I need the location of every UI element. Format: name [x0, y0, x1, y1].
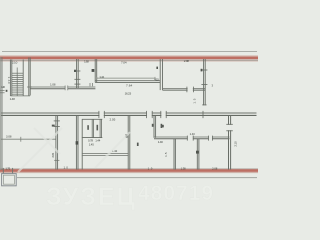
- middle wall door ticks: [99, 111, 203, 118]
- watermark diagonal strokes: [18, 128, 130, 172]
- svg-text:ЗУЗЕЦ: ЗУЗЕЦ: [46, 183, 137, 211]
- svg-text:480719: 480719: [138, 182, 214, 205]
- svg-text:1.40: 1.40: [190, 132, 196, 136]
- svg-text:7.04: 7.04: [121, 61, 127, 65]
- lower-left dimension line: [1, 138, 56, 140]
- WC cabin labels (rotated dims): [87, 125, 89, 130]
- dark label left of wall C: [126, 134, 128, 137]
- dark tick on wall G: [196, 151, 199, 154]
- label left of right upper wall: [201, 69, 203, 72]
- dark label on lower wall B: [76, 141, 79, 144]
- room A bottom wall (double): [30, 86, 95, 88]
- interior dimension line: [97, 77, 156, 79]
- svg-text:7.64: 7.64: [126, 83, 132, 87]
- big room bottom wall (double): [95, 80, 160, 82]
- svg-text:1.68: 1.68: [84, 59, 89, 63]
- stair bottom edge: [10, 95, 30, 97]
- bottom rooms top wall (double): [154, 136, 230, 138]
- lower right outer wall (double): [228, 116, 230, 170]
- bottom red wall upper edge: [0, 168, 258, 170]
- top red wall: [0, 57, 258, 60]
- svg-text:3.08: 3.08: [6, 135, 12, 139]
- WC block top line: [82, 118, 102, 120]
- svg-text:1.40: 1.40: [158, 140, 163, 144]
- rotated labels near wall x159: [156, 67, 158, 69]
- stair stringer: [16, 68, 18, 96]
- tick on stairwell wall: [27, 86, 32, 88]
- svg-text:1.08: 1.08: [50, 82, 56, 86]
- svg-text:2.10: 2.10: [234, 141, 238, 147]
- door openings in bottom rooms wall: [188, 136, 193, 139]
- lower wall C (double): [127, 116, 129, 170]
- top dimension line: [2, 51, 257, 53]
- svg-text:1.41: 1.41: [99, 75, 104, 79]
- lower wall D (double): [153, 116, 155, 138]
- svg-text:1.40: 1.40: [1, 85, 5, 89]
- porch inner rectangle: [3, 175, 14, 184]
- dark label near hall corner: [162, 125, 164, 128]
- porch door ticks: [2, 168, 4, 174]
- wall between room B and hall room (double): [94, 59, 96, 82]
- WC block bottom wall: [82, 137, 102, 139]
- svg-text:1.5: 1.5: [164, 152, 168, 157]
- svg-text:2.05: 2.05: [110, 117, 116, 121]
- top red wall lower edge: [0, 59, 258, 61]
- tick on lower-left dimension line: [20, 137, 22, 142]
- stair shaft right edge: [22, 60, 24, 97]
- stairwell right wall (double): [28, 58, 30, 96]
- door ticks below room B: [89, 83, 91, 86]
- ticks on left outer wall: [0, 90, 5, 92]
- svg-text:2.10: 2.10: [12, 60, 18, 64]
- bottom room divider G (double): [196, 139, 198, 170]
- WC divider wall (double): [91, 119, 93, 137]
- lower wall A (double): [55, 116, 57, 170]
- svg-text:1.0: 1.0: [64, 166, 69, 170]
- label near lower wall A door: [52, 125, 55, 127]
- door opening in right wall: [228, 125, 232, 130]
- middle wall upper line: [1, 112, 257, 114]
- right upper wall (double): [203, 59, 205, 105]
- label right of wall C: [137, 143, 139, 146]
- svg-text:4.15: 4.15: [154, 77, 159, 81]
- middle wall lower line: [1, 114, 257, 116]
- dark hinge blob on A/B wall: [74, 70, 76, 72]
- porch outer rectangle: [2, 174, 17, 186]
- stair tick label: [6, 90, 8, 92]
- bottom red wall: [0, 169, 258, 172]
- top red wall halo: [0, 55, 258, 57]
- wall between rooms A and B (double): [76, 59, 78, 88]
- door ticks on lower wall A: [54, 120, 60, 122]
- stair treads: [12, 73, 23, 94]
- svg-text:2.98: 2.98: [184, 59, 189, 63]
- svg-text:1.75: 1.75: [5, 166, 10, 170]
- svg-text:2.15: 2.15: [51, 153, 55, 158]
- labels beside wall D: [152, 124, 154, 127]
- door opening gaps in middle wall: [99, 112, 103, 116]
- door opening in room A wall: [65, 86, 67, 89]
- dark door leaf: [92, 69, 95, 72]
- ticks on right upper wall: [201, 69, 207, 71]
- bottom room divider F (double): [173, 139, 175, 170]
- left outer wall: [0, 57, 2, 170]
- bottom dimension line: [17, 177, 257, 179]
- svg-text:1.38: 1.38: [181, 166, 186, 170]
- wall right of big room (double): [159, 59, 161, 90]
- bottom red wall halo: [0, 172, 258, 174]
- svg-text:1.9: 1.9: [148, 166, 153, 170]
- svg-text:1.5: 1.5: [192, 98, 196, 103]
- stair shaft left wall (double): [9, 60, 11, 97]
- svg-text:1.45: 1.45: [89, 143, 94, 147]
- svg-text:2.08: 2.08: [212, 166, 218, 170]
- tick on lower wall A near red line: [54, 159, 59, 161]
- svg-text:1.44: 1.44: [95, 139, 100, 143]
- lower wall B (double): [75, 116, 77, 170]
- room D bottom wall (double): [163, 87, 206, 89]
- WC block left wall: [81, 119, 83, 169]
- door opening in room D wall: [188, 88, 193, 92]
- WC right wall (double): [99, 119, 101, 137]
- door frame ticks on A/B wall: [74, 70, 80, 72]
- svg-text:1.10: 1.10: [7, 77, 11, 84]
- counter double lines: [82, 153, 129, 155]
- svg-text:1.48: 1.48: [10, 97, 15, 101]
- svg-text:16.23: 16.23: [125, 91, 132, 95]
